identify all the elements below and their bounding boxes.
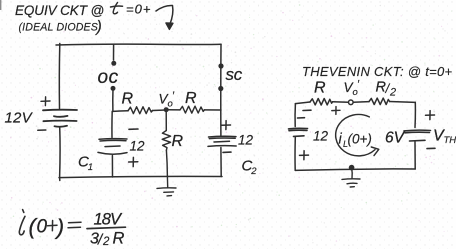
fraction bar [87, 227, 126, 228]
node dot (thevenin ground) [349, 165, 355, 171]
svg-text:R: R [113, 230, 125, 248]
battery 6V plates (thevenin right) [404, 130, 431, 141]
label - (battery bottom) [38, 129, 46, 131]
node dot (oc bottom) [111, 86, 116, 91]
wire: right vertical upper (sc branch) [220, 44, 222, 136]
svg-text:THEVENIN CKT: @ t=0+: THEVENIN CKT: @ t=0+ [302, 64, 453, 79]
wire: thevenin bottom wire [295, 169, 415, 170]
svg-text:oc: oc [98, 67, 119, 88]
wire: node to R/2 [353, 101, 369, 104]
wire: middle horizontal to right branch [204, 109, 221, 111]
svg-text:(0+): (0+) [348, 132, 372, 147]
node Vo' dot [164, 107, 169, 112]
ground (left circuit) [157, 177, 176, 196]
capacitor C1 plates [98, 139, 127, 155]
svg-text:=0+: =0+ [126, 2, 151, 17]
svg-text:2: 2 [250, 166, 257, 177]
node dot (sc bottom) [218, 86, 223, 91]
subtitle: (IDEAL DIODES) [19, 19, 102, 36]
label + (left battery bottom) [300, 151, 309, 160]
svg-text:R: R [314, 80, 326, 97]
svg-text:12V: 12V [5, 110, 34, 127]
wire: thevenin right vertical upper [414, 102, 416, 127]
label - (right battery bottom) [427, 147, 435, 149]
wire: thevenin left vertical lower [294, 137, 296, 170]
svg-text:12: 12 [238, 133, 254, 148]
svg-text:EQUIV CKT @: EQUIV CKT @ [15, 3, 104, 18]
wire: C1 branch lower [111, 156, 113, 178]
svg-text:18V: 18V [94, 211, 124, 229]
svg-text:(IDEAL DIODES: (IDEAL DIODES [19, 22, 98, 34]
wire: top wire [56, 43, 221, 46]
svg-text:1: 1 [88, 162, 93, 173]
svg-text:): ) [95, 19, 102, 36]
title: THEVENIN CKT: @ t=0+ [302, 64, 453, 79]
title t glyph (hand-drawn) [111, 3, 123, 14]
resistor R (thevenin) [310, 99, 333, 106]
resistor R (left) [128, 107, 153, 114]
label R/2 (thevenin) [376, 80, 397, 99]
svg-text:2: 2 [389, 87, 396, 99]
formula + [48, 221, 58, 231]
loop arrow iL(0+) [336, 114, 379, 155]
wire: oc branch down to middle wire [112, 88, 114, 111]
wire: top to node [333, 101, 349, 104]
formula denominator 3/2 R [90, 230, 125, 249]
label + (C2 top) [222, 121, 231, 130]
wire: middle horizontal right of node [166, 109, 180, 111]
wire: middle horizontal between R and node [153, 109, 167, 112]
svg-text:2: 2 [102, 236, 110, 248]
scan edge artifact [0, 0, 1, 10]
svg-text:0: 0 [37, 217, 48, 238]
label - (C1 top) [129, 128, 138, 130]
node dot (sc top) [218, 63, 223, 68]
wire: thevenin right vertical lower [414, 142, 416, 169]
wire: thevenin left vertical upper [294, 104, 296, 127]
node dot (oc top) [111, 61, 116, 66]
resistor R (vertical below node) [162, 112, 170, 177]
capacitor C2 plates [208, 136, 236, 146]
label Vo' (thevenin) [344, 79, 361, 99]
label + (right battery top) [426, 111, 435, 120]
svg-text:R: R [122, 91, 134, 108]
ground (thevenin) [342, 168, 360, 187]
label - (left battery top) [298, 117, 305, 119]
label VTH [433, 128, 456, 147]
title: EQUIV CKT @ t=0+ [15, 3, 104, 18]
svg-text:sc: sc [226, 65, 243, 84]
resistor R/2 (thevenin) [369, 98, 390, 105]
equals sign [68, 222, 81, 228]
wire: bottom wire [59, 176, 222, 177]
wire: left vertical upper [58, 44, 60, 109]
label C2 [242, 158, 258, 178]
arrow (curved, pointing down) [156, 5, 173, 29]
label + (R right polarity) [332, 107, 340, 115]
label + (battery top) [41, 97, 50, 106]
label iL(0+) [339, 132, 372, 150]
svg-text:TH: TH [444, 135, 456, 146]
label - (R left polarity) [303, 109, 311, 111]
battery 12V plates [43, 110, 77, 127]
label + (C1 bottom) [129, 157, 138, 166]
svg-text:12: 12 [313, 129, 329, 144]
wire: oc stub from top [113, 44, 115, 60]
svg-text:6V: 6V [385, 130, 406, 147]
label C1 [78, 154, 93, 174]
resistor R (right) [180, 106, 204, 113]
svg-text:R: R [185, 90, 197, 107]
wire: R/2 to right corner [390, 101, 416, 104]
svg-text:12: 12 [130, 139, 146, 154]
svg-text:R: R [172, 133, 184, 150]
wire: middle horizontal left segment [113, 110, 128, 113]
label Vo' [159, 90, 176, 110]
wire: C1 branch upper [111, 111, 113, 137]
node Vo' circle (thevenin) [349, 100, 354, 105]
wire: left vertical lower [59, 127, 61, 181]
wire: thevenin top left segment [295, 102, 310, 104]
label - (C2 bottom) [223, 151, 231, 153]
battery 12 plates (thevenin left) [289, 128, 308, 136]
formula i (hand-drawn) [19, 210, 25, 235]
wire: right vertical lower [220, 148, 222, 177]
